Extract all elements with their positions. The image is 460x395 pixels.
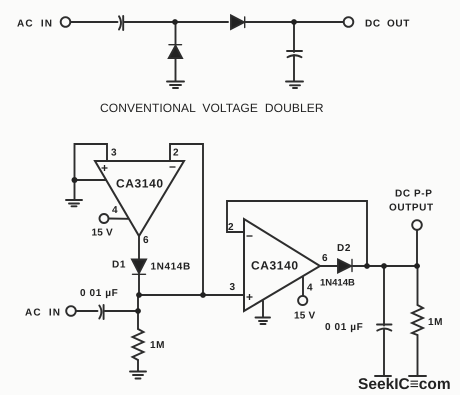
svg-text:1M: 1M	[428, 317, 443, 328]
svg-text:0 01 µF: 0 01 µF	[325, 322, 363, 333]
svg-text:CA3140: CA3140	[251, 259, 299, 273]
svg-text:D1: D1	[112, 260, 126, 271]
svg-text:OUTPUT: OUTPUT	[389, 203, 434, 214]
svg-text:15 V: 15 V	[92, 228, 114, 239]
svg-text:AC IN: AC IN	[25, 308, 61, 319]
svg-text:−: −	[169, 160, 176, 174]
svg-text:+: +	[101, 161, 108, 175]
svg-text:1N414B: 1N414B	[320, 278, 355, 289]
svg-text:6: 6	[143, 235, 149, 246]
svg-text:6: 6	[322, 253, 328, 264]
svg-text:4: 4	[112, 205, 118, 216]
svg-text:2: 2	[228, 222, 234, 233]
svg-text:0 01 µF: 0 01 µF	[80, 288, 118, 299]
svg-text:3: 3	[111, 148, 117, 159]
svg-text:1M: 1M	[150, 340, 165, 351]
svg-text:+: +	[246, 290, 253, 304]
svg-text:D2: D2	[337, 243, 351, 254]
svg-text:15 V: 15 V	[294, 311, 316, 322]
svg-text:AC IN: AC IN	[17, 19, 53, 30]
svg-text:SeekIC≡com: SeekIC≡com	[358, 376, 451, 393]
svg-text:CA3140: CA3140	[116, 177, 164, 191]
svg-text:DC OUT: DC OUT	[365, 19, 410, 30]
svg-text:4: 4	[307, 283, 313, 294]
svg-text:1N414B: 1N414B	[151, 262, 191, 273]
svg-text:2: 2	[173, 148, 179, 159]
svg-text:DC P-P: DC P-P	[395, 189, 433, 200]
svg-text:3: 3	[230, 282, 236, 293]
svg-text:−: −	[246, 229, 253, 243]
svg-text:CONVENTIONAL VOLTAGE DOUBLER: CONVENTIONAL VOLTAGE DOUBLER	[100, 101, 324, 115]
